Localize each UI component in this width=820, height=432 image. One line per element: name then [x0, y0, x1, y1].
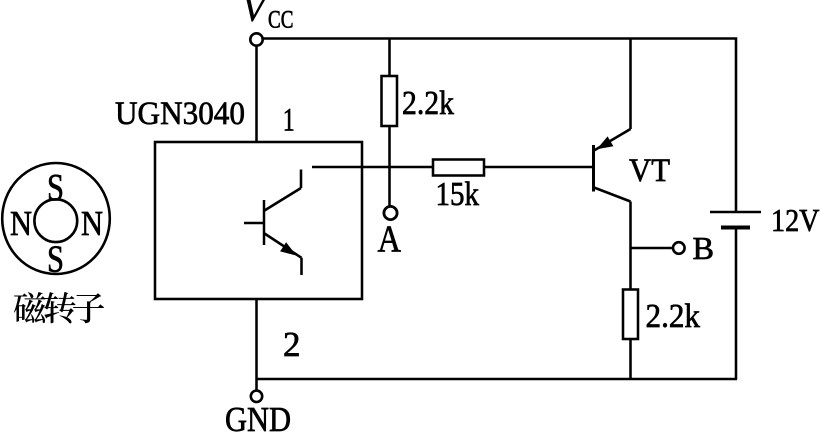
- svg-text:N: N: [10, 204, 32, 243]
- svg-text:2: 2: [283, 325, 301, 364]
- svg-text:2.2k: 2.2k: [402, 85, 454, 122]
- svg-text:2.2k: 2.2k: [646, 298, 701, 335]
- svg-text:1: 1: [283, 103, 295, 139]
- svg-text:VT: VT: [629, 153, 670, 189]
- svg-text:B: B: [693, 230, 715, 266]
- svg-text:S: S: [47, 167, 64, 209]
- svg-text:UGN3040: UGN3040: [115, 96, 245, 132]
- svg-text:V: V: [243, 0, 268, 29]
- svg-text:S: S: [47, 239, 64, 281]
- svg-text:N: N: [81, 204, 103, 243]
- svg-text:12V: 12V: [771, 202, 820, 238]
- svg-text:CC: CC: [268, 6, 293, 33]
- svg-text:GND: GND: [225, 400, 291, 432]
- svg-text:15k: 15k: [436, 176, 480, 213]
- svg-text:A: A: [378, 219, 402, 261]
